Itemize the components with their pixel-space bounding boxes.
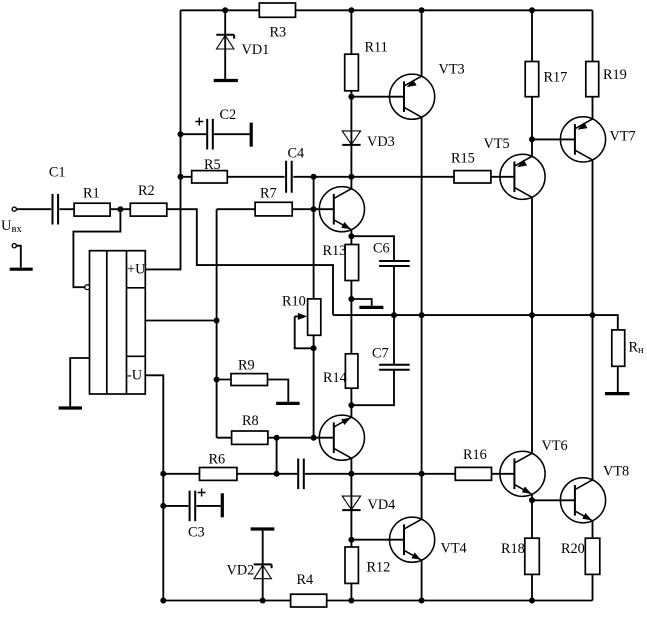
svg-text:VT3: VT3 <box>439 62 465 78</box>
wire R19 branch / VT7 emitter <box>592 10 594 119</box>
wire VT4 emitter to bottom rail <box>421 560 423 600</box>
wire R11/VD3 branch <box>350 10 352 177</box>
label C3 <box>188 524 205 540</box>
junction node 32 <box>348 537 354 543</box>
wire C3 tap <box>163 505 220 507</box>
wire output row to RH <box>333 315 618 330</box>
wire VT5 collector down to VT6 collector <box>531 197 533 453</box>
label R7 <box>260 186 277 202</box>
wire op-amp -U pin down to bottom rail <box>145 375 163 600</box>
resistor R8 <box>232 431 268 444</box>
junction node 27 <box>274 471 280 477</box>
label R6 <box>209 452 226 468</box>
resistor R12 <box>345 547 358 583</box>
wire VT7 collector down to VT8 collector <box>592 160 594 480</box>
svg-text:VD1: VD1 <box>242 42 270 58</box>
svg-text:R2: R2 <box>138 183 155 199</box>
label R12 <box>367 560 391 576</box>
svg-text:VT4: VT4 <box>441 541 467 557</box>
transistor VT1 <box>319 187 364 232</box>
label R10 <box>282 294 306 310</box>
capacitor C1 <box>53 194 59 225</box>
wire VT3 emitter to top rail <box>421 10 423 76</box>
junction node 36 <box>529 598 535 604</box>
junction node 29 <box>419 471 425 477</box>
transistor VT4 <box>390 517 435 562</box>
label R15 <box>451 151 475 167</box>
junction node 9 <box>348 174 354 180</box>
wire VT3 collector down to VT4 collector <box>421 117 423 519</box>
wire VT7 base from R17 <box>532 138 576 140</box>
label R19 <box>603 67 627 83</box>
wire R7 row to VT1 base <box>217 208 335 210</box>
svg-text:VD2: VD2 <box>227 563 255 579</box>
ground below RH <box>605 392 629 395</box>
junction node 24 <box>160 471 166 477</box>
ground at input <box>10 268 33 271</box>
junction node 11 <box>311 206 317 212</box>
wire R8 node down to R6 node <box>276 438 278 474</box>
wire VT3 base from R11/VD3 junction <box>351 96 404 98</box>
resistor R18 <box>525 538 540 574</box>
diode VD4 <box>342 496 360 510</box>
svg-text:R14: R14 <box>323 370 347 386</box>
wire VD1 branch from top rail to ground <box>224 10 226 79</box>
resistor R13 <box>345 245 359 281</box>
wire input to C1 <box>16 208 51 210</box>
label VD1 <box>242 42 270 58</box>
junction node 17 <box>391 312 397 318</box>
wire bottom -V rail <box>163 600 592 602</box>
ground above VD2 <box>251 527 275 530</box>
wire VD4 branch <box>350 474 352 540</box>
label C6 <box>373 241 390 257</box>
capacitor C3 plus <box>198 489 206 497</box>
wire VT8 emitter to R20 and bottom rail <box>592 521 594 601</box>
capacitor C2 ground bar <box>250 123 253 147</box>
wire VT2 collector lead <box>350 458 352 474</box>
wire R17 branch from top rail <box>531 10 533 139</box>
label R9 <box>238 358 255 374</box>
wire feedback from R2 to output row <box>167 209 333 315</box>
wire VT8 base from VT6 emitter <box>532 499 576 501</box>
label R3 <box>270 25 287 41</box>
svg-text:R18: R18 <box>501 541 525 557</box>
input terminal bottom <box>12 244 16 248</box>
resistor R15 <box>454 171 491 183</box>
wire middle vertical R7-R8 <box>216 209 218 438</box>
label +U <box>127 261 146 277</box>
resistor R1 <box>74 203 110 216</box>
label R1 <box>83 186 100 202</box>
label R2 <box>138 183 155 199</box>
junction node 8 <box>311 174 317 180</box>
label VT7 <box>610 129 636 145</box>
svg-text:R9: R9 <box>238 358 255 374</box>
label R5 <box>204 157 221 173</box>
resistor R11 <box>345 54 359 91</box>
svg-text:R12: R12 <box>367 560 391 576</box>
diode VD3 <box>342 131 360 145</box>
junction node 7 <box>117 206 123 212</box>
transistor VT2 <box>319 415 364 460</box>
label R18 <box>501 541 525 557</box>
op-amp inverting input circle <box>85 285 90 290</box>
wire RH to ground <box>617 366 619 392</box>
junction node 12 <box>348 233 354 239</box>
svg-text:R16: R16 <box>463 447 487 463</box>
svg-text:R3: R3 <box>270 25 287 41</box>
junction node 13 <box>214 318 220 324</box>
wire R9 to ground <box>217 380 289 402</box>
resistor R2 <box>130 203 167 216</box>
wire C2 tap from left rail <box>181 133 250 135</box>
label R11 <box>365 40 388 56</box>
label R16 <box>463 447 487 463</box>
svg-text:-U: -U <box>127 368 143 384</box>
resistor R19 <box>586 62 599 97</box>
junction node 19 <box>529 312 535 318</box>
svg-text:R8: R8 <box>242 413 259 429</box>
label R13 <box>323 243 347 259</box>
wire C4 node down through R10 to VT2 base row <box>313 177 315 438</box>
junction node 22 <box>274 435 280 441</box>
op-amp U1 body <box>90 251 146 394</box>
wire VT2 emitter lead <box>350 405 352 417</box>
junction node 4 <box>529 7 535 13</box>
wire C1 to R1 <box>59 208 74 210</box>
wire R1/R2 junction to inverting input <box>73 209 120 287</box>
svg-text:C7: C7 <box>372 346 389 362</box>
svg-text:VD3: VD3 <box>367 134 395 150</box>
label VD4 <box>368 497 396 513</box>
label C4 <box>288 146 305 162</box>
wire R15 to VT5 base <box>491 176 515 178</box>
resistor R6 <box>200 468 237 481</box>
label C7 <box>372 346 389 362</box>
resistor R3 <box>259 3 295 17</box>
ground at op-amp noninverting input <box>59 406 82 409</box>
label VT3 <box>439 62 465 78</box>
svg-text:VT5: VT5 <box>484 136 510 152</box>
zener diode VD2 <box>254 564 272 578</box>
capacitor C3 plates <box>190 491 196 522</box>
resistor R14 <box>345 354 358 388</box>
capacitor C4 <box>286 161 292 193</box>
resistor R16 <box>455 467 491 480</box>
junction node 33 <box>260 598 266 604</box>
wire top +V rail <box>181 9 593 11</box>
capacitor C2 plates <box>207 119 213 150</box>
wire VT1 collector lead <box>350 177 352 189</box>
svg-text:C1: C1 <box>49 165 66 181</box>
wire R1 to R2 <box>110 208 130 210</box>
junction node 26 <box>160 598 166 604</box>
potentiometer R10 <box>308 299 321 335</box>
capacitor C3 ground bar <box>221 493 224 517</box>
wire input ground stub <box>16 246 20 268</box>
capacitor C2 plus <box>195 118 203 126</box>
label R20 <box>561 541 585 557</box>
junction node 14 <box>214 377 220 383</box>
svg-text:C2: C2 <box>220 107 237 123</box>
junction node 10 <box>348 94 354 100</box>
ground below VD1 <box>214 79 238 82</box>
resistor R20 <box>585 538 600 574</box>
label R17 <box>544 70 568 86</box>
resistor R9 <box>231 374 268 386</box>
label R14 <box>323 370 347 386</box>
label C2 <box>220 107 237 123</box>
op-amp U1 inner columns <box>107 251 127 394</box>
svg-text:R10: R10 <box>282 294 306 310</box>
svg-text:R17: R17 <box>544 70 568 86</box>
svg-text:VT8: VT8 <box>603 464 629 480</box>
junction node 28 <box>348 471 354 477</box>
svg-text:R7: R7 <box>260 186 277 202</box>
capacitor C6 <box>379 261 410 266</box>
ground at R9 <box>276 402 299 405</box>
wire R14 bottom to VT2 emitter <box>350 388 352 405</box>
label VT8 <box>603 464 629 480</box>
transistor VT3 <box>390 74 435 119</box>
junction node 34 <box>348 598 354 604</box>
svg-text:R6: R6 <box>209 452 226 468</box>
capacitor C7 <box>379 365 410 370</box>
load resistor RH <box>612 330 625 366</box>
zener diode VD1 <box>216 35 234 49</box>
svg-text:R1: R1 <box>83 186 100 202</box>
wire VT4 base from VD4/R12 junction <box>351 539 404 541</box>
wire C7 branch <box>351 315 394 405</box>
junction node 21 <box>348 402 354 408</box>
label VT5 <box>484 136 510 152</box>
label -U <box>127 368 143 384</box>
junction node 25 <box>160 503 166 509</box>
wire R13 bottom ground stub <box>351 299 371 306</box>
capacitor C5 <box>298 459 304 490</box>
svg-text:R15: R15 <box>451 151 475 167</box>
resistor R7 <box>255 202 292 216</box>
svg-text:R20: R20 <box>561 541 585 557</box>
op-amp U1 supply cell dividers <box>127 288 146 357</box>
label RH <box>629 340 645 357</box>
label C1 <box>49 165 66 181</box>
svg-text:VD4: VD4 <box>368 497 396 513</box>
svg-text:R4: R4 <box>297 572 314 588</box>
junction node 1 <box>222 7 228 13</box>
wire left rail to op-amp +U pin <box>145 10 180 269</box>
junction node 20 <box>590 312 596 318</box>
transistor VT8 <box>560 478 605 523</box>
junction node 30 <box>529 136 535 142</box>
junction node 23 <box>311 435 317 441</box>
wire R5 C4 R15 row <box>181 176 455 178</box>
label VT4 <box>441 541 467 557</box>
wire op-amp noninverting input to ground <box>70 358 89 406</box>
junction node 18 <box>419 312 425 318</box>
label VD2 <box>227 563 255 579</box>
svg-text:C3: C3 <box>188 524 205 540</box>
junction node 2 <box>348 7 354 13</box>
input terminal top <box>12 207 16 211</box>
svg-text:R19: R19 <box>603 67 627 83</box>
wire R8 row to VT2 base <box>217 437 335 439</box>
transistor VT5 <box>500 154 545 199</box>
R10 wiper arrow <box>298 313 308 320</box>
svg-text:+U: +U <box>127 261 146 277</box>
resistor R4 <box>291 594 327 607</box>
svg-text:C4: C4 <box>288 146 305 162</box>
junction node 6 <box>178 174 184 180</box>
label VT6 <box>542 438 568 454</box>
label VD3 <box>367 134 395 150</box>
svg-text:VT7: VT7 <box>610 129 636 145</box>
svg-text:VT6: VT6 <box>542 438 568 454</box>
wire R10 wiper <box>295 316 314 348</box>
junction node 35 <box>419 598 425 604</box>
wire VT6 emitter to R18 and bottom rail <box>531 494 533 600</box>
wire R12 branch <box>350 540 352 601</box>
wire R6 row <box>163 473 351 475</box>
wire C6 branch <box>351 236 394 315</box>
wire VD2 branch from ground to bottom rail <box>262 531 264 601</box>
svg-text:R13: R13 <box>323 243 347 259</box>
junction node 5 <box>178 131 184 137</box>
junction node 3 <box>419 7 425 13</box>
wire VT2 collector row to R16 and VT6 base <box>351 473 515 475</box>
wire VT5 emitter lead <box>531 139 533 156</box>
junction node 15 <box>311 345 317 351</box>
label R8 <box>242 413 259 429</box>
resistor R5 <box>192 171 228 183</box>
resistor R17 <box>525 62 539 97</box>
wire op-amp output <box>145 320 216 322</box>
svg-text:C6: C6 <box>373 241 390 257</box>
label R4 <box>297 572 314 588</box>
transistor VT6 <box>500 451 545 496</box>
ground at R13 bottom <box>359 306 383 309</box>
transistor VT7 <box>560 117 605 162</box>
svg-text:R11: R11 <box>365 40 388 56</box>
label Uvx <box>1 218 22 235</box>
junction node 16 <box>348 296 354 302</box>
junction node 31 <box>529 497 535 503</box>
wire VT1 emitter through R13 R14 to VT2 emitter node <box>350 230 352 354</box>
svg-text:R5: R5 <box>204 157 221 173</box>
